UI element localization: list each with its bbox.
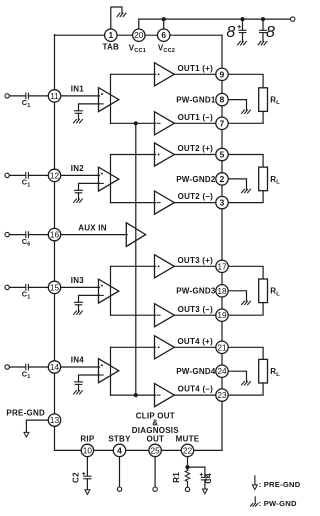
pin 23 OUT4 (-) bbox=[216, 389, 228, 401]
op-amp power ch3 positive bbox=[155, 255, 175, 278]
wire VCC supply rail bbox=[139, 18, 293, 20]
svg-text:23: 23 bbox=[217, 390, 227, 400]
label PRE-GND pin 13 bbox=[6, 409, 45, 418]
wire input IN2 to C1 bbox=[9, 174, 25, 176]
terminal STBY bbox=[117, 487, 121, 491]
label OUT4 (+) bbox=[177, 337, 213, 346]
wire input IN1 to C1 bbox=[9, 95, 25, 97]
wire splitter column ch3 bbox=[110, 266, 112, 315]
wire STBY lead bbox=[119, 457, 121, 487]
wire C1 to pin 11 bbox=[28, 95, 48, 97]
pin 6 VCC2 bbox=[158, 29, 170, 41]
svg-text:IN2: IN2 bbox=[71, 164, 85, 173]
wire input IN4 to C1 bbox=[9, 366, 25, 368]
wire MUTE lead bbox=[187, 457, 189, 471]
pin 11 IN1 bbox=[48, 90, 60, 102]
pin 21 OUT4 (+) bbox=[216, 341, 228, 353]
wire OUT4 (+) to pin 21 bbox=[174, 346, 216, 348]
svg-text:R1: R1 bbox=[172, 472, 181, 483]
svg-text:OUT2 (–): OUT2 (–) bbox=[178, 192, 213, 201]
pin 25 CLIP OUT and DIAGNOSIS OUT bbox=[149, 444, 161, 456]
wire PW-GND3 stub bbox=[228, 291, 246, 301]
svg-text:OUT4 (+): OUT4 (+) bbox=[177, 337, 213, 346]
label C4 bbox=[204, 473, 213, 484]
svg-text:14: 14 bbox=[50, 362, 60, 372]
wire feedback cap ch4 to ground bbox=[78, 384, 80, 390]
svg-text:1: 1 bbox=[27, 294, 30, 300]
op-amp power ch1 positive bbox=[155, 63, 175, 86]
svg-text:IN1: IN1 bbox=[71, 85, 85, 94]
pin 19 OUT3 (-) bbox=[216, 309, 228, 321]
wire right boundary bus bbox=[221, 35, 223, 450]
ground PRE-GND C2 bbox=[85, 490, 90, 495]
wire C6 to pin 16 bbox=[28, 234, 48, 236]
op-amp power ch4 positive bbox=[155, 336, 175, 359]
wire OUT1 (-) to pin 7 bbox=[174, 122, 216, 124]
svg-text:3: 3 bbox=[220, 198, 225, 208]
wire pin 15 to op-amp bbox=[61, 286, 100, 288]
ground PW-GND supply cap 1 bbox=[238, 41, 247, 44]
label IN3 bbox=[71, 276, 85, 285]
resistor RL ch4 bbox=[259, 359, 268, 383]
node junction AUX bus bottom bbox=[134, 393, 138, 397]
svg-text:L: L bbox=[276, 372, 280, 378]
svg-text:12: 12 bbox=[50, 170, 60, 180]
label PW-GND4 bbox=[176, 367, 216, 376]
wire C1 to pin 12 bbox=[28, 174, 48, 176]
svg-text:C4: C4 bbox=[204, 473, 213, 484]
ground PW-GND ch4 input bbox=[74, 391, 83, 394]
label supply cap 1 bbox=[226, 24, 235, 41]
capacitor C2 plus mark bbox=[83, 473, 85, 475]
wire OUT4 (-) to pin 23 bbox=[174, 394, 216, 396]
svg-text:OUT3 (–): OUT3 (–) bbox=[178, 305, 213, 314]
label VCC1 bbox=[129, 43, 146, 54]
svg-text:6: 6 bbox=[27, 242, 30, 248]
wire C1 to pin 14 bbox=[28, 366, 48, 368]
pin 3 OUT2 (-) bbox=[216, 196, 228, 208]
label STBY bbox=[108, 435, 131, 444]
label OUT1 (-) bbox=[178, 113, 213, 122]
svg-text:1: 1 bbox=[27, 374, 30, 380]
op-amp power ch1 negative bbox=[155, 112, 175, 135]
wire pin 12 to op-amp bbox=[61, 174, 100, 176]
capacitor C4 plus mark bbox=[200, 473, 202, 475]
wire AUX input to C6 bbox=[9, 234, 25, 236]
svg-text:7: 7 bbox=[220, 118, 225, 128]
svg-text:C2: C2 bbox=[72, 472, 81, 483]
legend label PRE-GND bbox=[259, 480, 301, 489]
svg-text:22: 22 bbox=[183, 445, 193, 455]
label supply cap 2 bbox=[266, 24, 275, 41]
wire AUX distribution bus bbox=[135, 123, 137, 395]
label RL ch2 bbox=[270, 175, 280, 186]
wire supply cap 2 top lead bbox=[262, 19, 264, 30]
svg-text:IN3: IN3 bbox=[71, 276, 85, 285]
wire pin 14 to op-amp bbox=[61, 366, 100, 368]
label AUX IN bbox=[78, 223, 107, 232]
op-amp input ch2 bbox=[99, 167, 119, 191]
capacitor C4 bbox=[201, 477, 208, 480]
wire load ch2 bottom bbox=[228, 191, 263, 203]
wire DIAGNOSIS OUT lead bbox=[154, 457, 156, 487]
node junction supply cap 2 bbox=[261, 17, 265, 21]
node junction above VCC2 bbox=[162, 17, 166, 21]
label OUT2 (-) bbox=[178, 192, 213, 201]
pin 2 PW-GND2 bbox=[216, 173, 228, 185]
svg-text:8: 8 bbox=[266, 24, 275, 41]
svg-text:18: 18 bbox=[217, 286, 227, 296]
wire op-amp ch2 inverting input bbox=[79, 183, 100, 190]
label OUT1 (+) bbox=[177, 64, 213, 73]
label VCC2 bbox=[158, 43, 175, 54]
wire load ch1 bottom bbox=[228, 111, 263, 123]
svg-text:8: 8 bbox=[226, 24, 235, 41]
capacitor feedback ch2 bbox=[75, 190, 83, 193]
label RL ch1 bbox=[270, 96, 280, 107]
svg-text:L: L bbox=[276, 291, 280, 297]
terminal supply input bbox=[291, 17, 295, 21]
wire supply cap 1 bottom lead bbox=[242, 33, 244, 42]
op-amp AUX buffer bbox=[126, 223, 145, 247]
label OUT3 (-) bbox=[178, 305, 213, 314]
svg-text:STBY: STBY bbox=[108, 435, 131, 444]
resistor RL ch1 bbox=[259, 88, 268, 112]
legend PRE-GND symbol bbox=[252, 476, 257, 490]
label C1 of IN1 bbox=[22, 98, 31, 109]
svg-text:13: 13 bbox=[50, 415, 60, 425]
label PW-GND1 bbox=[176, 96, 216, 105]
wire splitter column ch4 bbox=[110, 347, 112, 395]
wire bottom boundary bus bbox=[55, 449, 223, 451]
label MUTE bbox=[176, 435, 200, 444]
pin 7 OUT1 (-) bbox=[216, 117, 228, 129]
svg-text:20: 20 bbox=[134, 30, 144, 40]
ground PW-GND3 bbox=[242, 301, 251, 304]
svg-text:9: 9 bbox=[220, 69, 225, 79]
svg-text:15: 15 bbox=[50, 282, 60, 292]
wire splitter column ch2 bbox=[110, 155, 112, 203]
svg-text:AUX IN: AUX IN bbox=[78, 223, 107, 232]
label ampersand bbox=[152, 418, 158, 427]
wire input IN3 to C1 bbox=[9, 286, 25, 288]
label RL ch4 bbox=[270, 367, 280, 378]
pin 15 IN3 bbox=[48, 281, 60, 293]
svg-text:10: 10 bbox=[83, 445, 93, 455]
svg-text:11: 11 bbox=[50, 91, 59, 101]
wire TAB ground bracket bbox=[111, 7, 122, 29]
wire OUT1 (+) to pin 9 bbox=[174, 73, 216, 75]
svg-text:TAB: TAB bbox=[102, 42, 119, 51]
capacitor feedback ch4 bbox=[75, 382, 83, 385]
wire branch ch4 positive bbox=[111, 346, 156, 348]
wire MUTE to C4 bbox=[188, 467, 205, 477]
svg-text:OUT1 (+): OUT1 (+) bbox=[177, 64, 213, 73]
terminal input IN4 bbox=[5, 365, 9, 369]
capacitor supply electrolytic plus mark bbox=[238, 25, 241, 28]
svg-text:PW-GND2: PW-GND2 bbox=[176, 175, 216, 184]
wire branch ch3 positive bbox=[111, 265, 156, 267]
svg-text:1: 1 bbox=[108, 30, 113, 40]
pin 8 PW-GND1 bbox=[216, 93, 228, 105]
pin 16 AUX IN bbox=[48, 228, 60, 240]
svg-text:IN4: IN4 bbox=[71, 356, 85, 365]
wire load ch3 top bbox=[228, 266, 263, 279]
node junction AUX bus top bbox=[134, 121, 138, 125]
pin 24 PW-GND4 bbox=[216, 365, 228, 377]
pin 14 IN4 bbox=[48, 361, 60, 373]
wire pin 13 to pre-ground bbox=[26, 420, 48, 432]
capacitor C6 AUX input bbox=[26, 232, 29, 238]
wire left boundary bus bbox=[54, 35, 56, 451]
wire feedback cap ch3 to ground bbox=[78, 305, 80, 311]
svg-text:CC2: CC2 bbox=[163, 48, 175, 54]
wire load ch2 top bbox=[228, 155, 263, 168]
label IN1 bbox=[71, 85, 85, 94]
label TAB bbox=[102, 42, 119, 51]
wire pin 16 to AUX amp bbox=[61, 234, 128, 236]
svg-text:PW-GND1: PW-GND1 bbox=[176, 96, 216, 105]
pin 9 OUT1 (+) bbox=[216, 68, 228, 80]
node junction supply cap 1 bbox=[240, 17, 244, 21]
label PW-GND2 bbox=[176, 175, 216, 184]
ground PW-GND ch3 input bbox=[74, 311, 83, 314]
capacitor C1 input IN2 bbox=[26, 173, 29, 179]
wire C2 to pre-ground bbox=[86, 479, 88, 490]
op-amp power ch3 negative bbox=[155, 304, 175, 327]
label CLIP OUT bbox=[136, 411, 175, 420]
svg-text:1: 1 bbox=[27, 103, 30, 109]
pin 1 TAB bbox=[105, 29, 117, 41]
op-amp input ch1 bbox=[99, 88, 119, 112]
capacitor C1 input IN4 bbox=[26, 364, 29, 370]
terminal input AUX bbox=[5, 232, 9, 236]
svg-text:OUT1 (–): OUT1 (–) bbox=[178, 113, 213, 122]
label C1 of IN3 bbox=[22, 290, 31, 301]
svg-text:L: L bbox=[276, 100, 280, 106]
svg-text:PRE-GND: PRE-GND bbox=[6, 409, 45, 418]
pin 13 PRE-GND bbox=[48, 414, 60, 426]
ground PW-GND2 bbox=[242, 189, 251, 192]
wire PW-GND2 stub bbox=[228, 179, 246, 189]
ground PW-GND ch1 input bbox=[74, 120, 83, 123]
wire load ch3 bottom bbox=[228, 303, 263, 316]
wire C4 to pre-ground bbox=[204, 480, 206, 489]
label PW-GND3 bbox=[176, 287, 216, 296]
op-amp input ch3 bbox=[99, 279, 119, 303]
legend PW-GND symbol bbox=[250, 497, 257, 506]
wire pin 11 to op-amp bbox=[61, 95, 100, 97]
wire VCC1 stub bbox=[138, 19, 140, 29]
ground PRE-GND pin 13 bbox=[24, 432, 29, 437]
wire load ch1 top bbox=[228, 74, 263, 88]
wire supply cap 2 bottom lead bbox=[262, 33, 264, 42]
pin 4 STBY bbox=[113, 444, 125, 456]
ground PW-GND1 bbox=[242, 110, 251, 113]
wire feedback cap ch2 to ground bbox=[78, 193, 80, 199]
capacitor C1 input IN3 bbox=[26, 285, 29, 291]
wire branch ch1 negative bbox=[111, 122, 156, 124]
svg-text:16: 16 bbox=[50, 230, 60, 240]
wire op-amp ch3 inverting input bbox=[79, 295, 100, 302]
svg-text:6: 6 bbox=[161, 30, 166, 40]
wire branch ch4 negative bbox=[111, 394, 156, 396]
wire load ch4 bottom bbox=[228, 383, 263, 395]
op-amp input ch4 bbox=[99, 359, 119, 383]
pin 17 OUT3 (+) bbox=[216, 260, 228, 272]
terminal DIAGNOSIS OUT bbox=[153, 487, 157, 491]
ground PRE-GND C4 bbox=[202, 489, 207, 494]
pin 5 OUT2 (+) bbox=[216, 148, 228, 160]
svg-text:OUT4 (–): OUT4 (–) bbox=[178, 385, 213, 394]
label OUT3 (+) bbox=[177, 256, 213, 265]
resistor R1 bbox=[185, 470, 190, 481]
label RL ch3 bbox=[270, 287, 280, 298]
pin 22 MUTE bbox=[181, 444, 193, 456]
label DIAGNOSIS bbox=[132, 426, 180, 435]
svg-text:OUT: OUT bbox=[146, 435, 164, 444]
label OUT diagnosis bbox=[146, 435, 164, 444]
capacitor supply ceramic plates bbox=[260, 30, 267, 32]
terminal input IN2 bbox=[5, 173, 9, 177]
wire load ch4 top bbox=[228, 347, 263, 359]
label IN2 bbox=[71, 164, 85, 173]
capacitor C2 bbox=[84, 476, 91, 479]
wire RIP lead bbox=[86, 457, 88, 476]
node junction MUTE bbox=[185, 465, 189, 469]
label RIP bbox=[80, 435, 95, 444]
wire feedback cap ch1 to ground bbox=[78, 113, 80, 119]
op-amp power ch4 negative bbox=[155, 384, 175, 407]
svg-text:L: L bbox=[276, 180, 280, 186]
svg-text:CC1: CC1 bbox=[134, 48, 146, 54]
resistor RL ch2 bbox=[259, 167, 268, 191]
wire branch ch2 positive bbox=[111, 154, 156, 156]
op-amp power ch2 negative bbox=[155, 191, 175, 214]
wire VCC2 stub bbox=[163, 19, 165, 29]
label C1 of IN4 bbox=[22, 369, 31, 380]
op-amp power ch2 positive bbox=[155, 143, 175, 166]
capacitor feedback ch3 bbox=[75, 302, 83, 305]
ground PW-GND supply cap 2 bbox=[258, 41, 267, 44]
wire C1 to pin 15 bbox=[28, 286, 48, 288]
svg-text:24: 24 bbox=[217, 366, 227, 376]
svg-text:17: 17 bbox=[217, 261, 227, 271]
wire OUT3 (-) to pin 19 bbox=[174, 314, 216, 316]
label R1 bbox=[172, 472, 181, 483]
wire branch ch1 positive bbox=[111, 73, 156, 75]
wire PW-GND1 stub bbox=[228, 100, 246, 110]
wire OUT2 (-) to pin 3 bbox=[174, 202, 216, 204]
resistor RL ch3 bbox=[259, 279, 268, 303]
pin 20 VCC1 bbox=[133, 29, 145, 41]
label OUT4 (-) bbox=[178, 385, 213, 394]
svg-text:1: 1 bbox=[27, 182, 30, 188]
legend label PW-GND bbox=[259, 499, 297, 508]
ground PW-GND at TAB bbox=[117, 13, 126, 16]
label C6 bbox=[22, 237, 31, 248]
wire op-amp ch4 inverting input bbox=[79, 375, 100, 382]
wire splitter column ch1 bbox=[110, 74, 112, 123]
label OUT2 (+) bbox=[177, 144, 213, 153]
svg-text:25: 25 bbox=[150, 445, 160, 455]
wire top boundary bus bbox=[55, 34, 223, 36]
pin 10 RIP bbox=[81, 444, 93, 456]
wire OUT3 (+) to pin 17 bbox=[174, 265, 216, 267]
wire branch ch2 negative bbox=[111, 202, 156, 204]
svg-text:: PRE-GND: : PRE-GND bbox=[259, 480, 301, 489]
svg-text:: PW-GND: : PW-GND bbox=[259, 499, 297, 508]
capacitor feedback ch1 bbox=[75, 111, 83, 114]
terminal input IN1 bbox=[5, 94, 9, 98]
svg-text:RIP: RIP bbox=[80, 435, 95, 444]
svg-text:PW-GND4: PW-GND4 bbox=[176, 367, 216, 376]
svg-text:19: 19 bbox=[217, 310, 227, 320]
ground PW-GND4 bbox=[242, 382, 251, 385]
svg-text:21: 21 bbox=[217, 342, 227, 352]
svg-text:OUT3 (+): OUT3 (+) bbox=[177, 256, 213, 265]
svg-text:8: 8 bbox=[220, 95, 225, 105]
svg-text:MUTE: MUTE bbox=[176, 435, 200, 444]
capacitor C1 input IN1 bbox=[26, 93, 29, 99]
capacitor supply electrolytic plates bbox=[239, 30, 246, 32]
terminal MUTE R1 bbox=[185, 487, 189, 491]
pin 18 PW-GND3 bbox=[216, 285, 228, 297]
svg-text:4: 4 bbox=[117, 445, 122, 455]
svg-text:OUT2 (+): OUT2 (+) bbox=[177, 144, 213, 153]
ground PW-GND ch2 input bbox=[74, 199, 83, 202]
wire branch ch3 negative bbox=[111, 314, 156, 316]
svg-text:2: 2 bbox=[220, 174, 225, 184]
wire OUT2 (+) to pin 5 bbox=[174, 154, 216, 156]
label C1 of IN2 bbox=[22, 178, 31, 189]
wire supply cap 1 top lead bbox=[242, 19, 244, 30]
wire op-amp ch1 inverting input bbox=[79, 104, 100, 111]
label IN4 bbox=[71, 356, 85, 365]
terminal input IN3 bbox=[5, 285, 9, 289]
svg-text:DIAGNOSIS: DIAGNOSIS bbox=[132, 426, 180, 435]
svg-text:5: 5 bbox=[220, 150, 225, 160]
wire R1 to terminal bbox=[187, 481, 189, 487]
svg-text:PW-GND3: PW-GND3 bbox=[176, 287, 216, 296]
wire PW-GND4 stub bbox=[228, 371, 246, 381]
label C2 bbox=[72, 472, 81, 483]
pin 12 IN2 bbox=[48, 169, 60, 181]
